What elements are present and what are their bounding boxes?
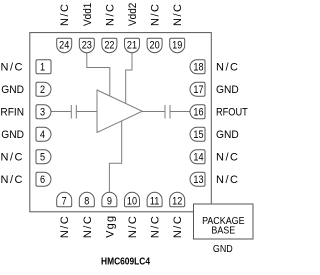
svg-text:HMC609LC4: HMC609LC4 — [101, 256, 151, 268]
svg-text:Vdd2: Vdd2 — [127, 3, 140, 26]
svg-text:BASE: BASE — [211, 225, 235, 237]
svg-text:N/C: N/C — [216, 152, 239, 164]
svg-text:6: 6 — [40, 174, 45, 186]
svg-text:3: 3 — [40, 107, 45, 119]
svg-text:RFIN: RFIN — [0, 106, 24, 118]
svg-text:N/C: N/C — [216, 62, 239, 74]
svg-text:N/C: N/C — [1, 174, 24, 186]
svg-text:N/C: N/C — [59, 215, 71, 238]
svg-text:16: 16 — [193, 107, 203, 119]
svg-text:Vdd1: Vdd1 — [81, 3, 94, 26]
svg-text:7: 7 — [62, 196, 67, 208]
svg-text:24: 24 — [59, 40, 69, 52]
svg-text:GND: GND — [1, 84, 24, 96]
svg-text:20: 20 — [150, 40, 160, 52]
svg-text:N/C: N/C — [127, 215, 139, 238]
svg-text:N/C: N/C — [172, 3, 184, 26]
svg-text:N/C: N/C — [150, 215, 162, 238]
svg-text:N/C: N/C — [216, 174, 239, 186]
svg-text:12: 12 — [172, 196, 182, 208]
svg-text:N/C: N/C — [82, 215, 94, 238]
svg-text:GND: GND — [216, 84, 239, 96]
svg-text:N/C: N/C — [59, 3, 71, 26]
svg-text:15: 15 — [193, 129, 203, 141]
svg-text:5: 5 — [40, 152, 45, 164]
svg-text:14: 14 — [193, 152, 203, 164]
svg-text:10: 10 — [127, 196, 137, 208]
svg-text:N/C: N/C — [104, 3, 116, 26]
svg-text:18: 18 — [193, 62, 203, 74]
svg-text:23: 23 — [82, 40, 92, 52]
svg-text:2: 2 — [40, 84, 45, 96]
svg-text:RFOUT: RFOUT — [216, 107, 248, 119]
svg-text:9: 9 — [107, 196, 112, 208]
svg-text:1: 1 — [40, 62, 45, 74]
svg-text:11: 11 — [150, 196, 160, 208]
svg-text:GND: GND — [1, 129, 24, 141]
svg-text:22: 22 — [104, 40, 114, 52]
svg-text:N/C: N/C — [172, 215, 184, 238]
svg-text:17: 17 — [193, 84, 203, 96]
svg-text:GND: GND — [216, 129, 239, 141]
svg-text:21: 21 — [127, 40, 137, 52]
svg-text:4: 4 — [40, 129, 45, 141]
svg-text:13: 13 — [193, 174, 203, 186]
svg-text:N/C: N/C — [1, 152, 24, 164]
svg-text:N/C: N/C — [1, 62, 24, 74]
svg-text:Vgg: Vgg — [104, 215, 116, 238]
svg-text:N/C: N/C — [150, 3, 162, 26]
svg-text:19: 19 — [172, 40, 182, 52]
svg-text:8: 8 — [84, 196, 89, 208]
svg-text:GND: GND — [213, 243, 233, 255]
